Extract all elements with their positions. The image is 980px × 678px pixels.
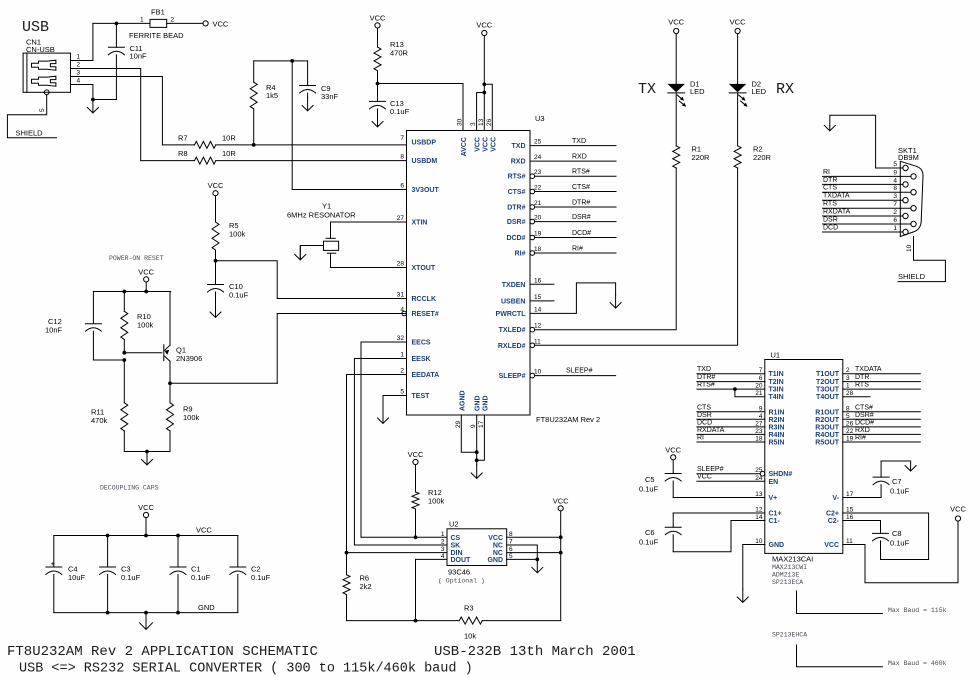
resistor R7 10R xyxy=(162,134,406,149)
svg-text:+: + xyxy=(51,559,56,568)
capacitor C6 0.1uF xyxy=(639,513,681,552)
svg-text:C2-: C2- xyxy=(828,518,840,525)
svg-text:RXD: RXD xyxy=(572,154,587,161)
svg-text:100k: 100k xyxy=(183,413,200,422)
ground xyxy=(295,247,306,260)
capacitor C2 0.1uF xyxy=(230,536,271,613)
svg-text:10k: 10k xyxy=(464,632,476,641)
svg-text:3: 3 xyxy=(893,193,897,200)
SKT1 pin 6 net DSR xyxy=(823,217,917,227)
svg-text:6: 6 xyxy=(400,183,404,190)
junction xyxy=(475,450,479,454)
junction xyxy=(376,82,380,86)
svg-text:RTS: RTS xyxy=(823,201,837,208)
svg-text:T1IN: T1IN xyxy=(769,371,784,378)
svg-text:6: 6 xyxy=(893,217,897,224)
svg-text:1: 1 xyxy=(77,54,81,61)
net RXD (U1 out) xyxy=(843,427,921,435)
svg-text:R5OUT: R5OUT xyxy=(815,440,839,447)
svg-text:SK: SK xyxy=(451,543,461,550)
U1 pin 21 T4IN xyxy=(755,390,783,401)
svg-text:U1: U1 xyxy=(771,351,781,360)
net TXD (U1) xyxy=(697,366,765,374)
wire xyxy=(71,85,93,100)
U3 pin 31 RCCLK xyxy=(397,292,436,304)
svg-text:SLEEP#: SLEEP# xyxy=(566,368,593,375)
svg-text:R3IN: R3IN xyxy=(769,424,785,431)
U2 pin 7 NC xyxy=(493,539,513,550)
U1 pin 5 R2OUT xyxy=(815,413,850,424)
svg-text:1: 1 xyxy=(893,225,897,232)
svg-text:0.1uF: 0.1uF xyxy=(121,573,141,582)
wire xyxy=(277,314,406,384)
svg-text:10: 10 xyxy=(906,244,913,252)
transistor Q1 2N3906 xyxy=(164,292,202,384)
svg-text:25: 25 xyxy=(534,139,542,146)
junction xyxy=(559,535,563,539)
svg-text:GND: GND xyxy=(475,395,482,411)
svg-text:16: 16 xyxy=(534,277,542,284)
svg-text:RXD: RXD xyxy=(511,159,526,166)
svg-text:DCD: DCD xyxy=(697,419,712,426)
svg-text:VCC: VCC xyxy=(196,526,212,535)
wire xyxy=(71,77,163,145)
svg-text:VCC: VCC xyxy=(370,13,386,22)
svg-text:VCC: VCC xyxy=(213,19,229,28)
svg-text:MAX213CWI: MAX213CWI xyxy=(772,564,807,571)
net RTS# xyxy=(535,169,616,177)
svg-text:12: 12 xyxy=(755,507,763,514)
svg-text:2k2: 2k2 xyxy=(360,582,372,591)
U3 pin 14 PWRCTL xyxy=(496,306,542,318)
svg-text:4: 4 xyxy=(441,553,445,560)
svg-text:C5: C5 xyxy=(645,475,655,484)
resistor R6 2k2 xyxy=(343,553,372,621)
wire xyxy=(145,282,147,292)
svg-text:USBEN: USBEN xyxy=(501,298,526,305)
power VCC (decoupling) xyxy=(143,512,148,517)
svg-text:3: 3 xyxy=(470,122,477,126)
U1 T4OUT stub xyxy=(843,396,870,398)
U1 pin 11 VCC xyxy=(824,538,853,549)
svg-text:25: 25 xyxy=(755,467,763,474)
capacitor C9 33nF xyxy=(300,61,339,101)
U1 pin 8 R1OUT xyxy=(815,405,850,416)
wire xyxy=(843,521,958,583)
svg-text:T3IN: T3IN xyxy=(769,387,784,394)
svg-text:DCD: DCD xyxy=(823,225,838,232)
wire xyxy=(71,69,141,161)
svg-text:4: 4 xyxy=(893,177,897,184)
junction xyxy=(144,611,148,615)
wire xyxy=(170,382,277,384)
svg-text:6MHz RESONATOR: 6MHz RESONATOR xyxy=(287,211,356,220)
svg-text:R4OUT: R4OUT xyxy=(815,432,839,439)
U1 pin 17 V- xyxy=(832,491,853,502)
svg-text:0.1uF: 0.1uF xyxy=(191,573,211,582)
svg-text:2: 2 xyxy=(846,367,850,374)
power VCC (after FB1) xyxy=(203,21,208,26)
svg-text:100k: 100k xyxy=(229,230,246,239)
resistor R1 220R xyxy=(673,93,710,168)
svg-text:DSR: DSR xyxy=(823,217,838,224)
svg-text:12: 12 xyxy=(534,323,542,330)
SKT1 pin 9 net RI xyxy=(823,169,917,179)
svg-text:19: 19 xyxy=(846,436,854,443)
svg-text:14: 14 xyxy=(755,514,763,521)
svg-text:EESK: EESK xyxy=(412,356,431,363)
junction xyxy=(122,351,126,355)
svg-text:11: 11 xyxy=(534,338,541,345)
U3 pin 18 RI# xyxy=(515,246,542,258)
svg-text:10: 10 xyxy=(534,369,542,376)
wire xyxy=(673,521,765,552)
svg-text:1: 1 xyxy=(846,383,850,390)
resistor R2 220R xyxy=(734,93,771,168)
SKT1 pin 1 net DCD xyxy=(823,225,909,235)
svg-text:VCC: VCC xyxy=(950,505,966,514)
U1 pin 6 T2IN xyxy=(759,375,784,386)
U2 pin 1 CS xyxy=(441,531,461,542)
U3 pin 32 EECS xyxy=(397,335,431,347)
capacitor C4 10uF (polarized) xyxy=(46,536,86,613)
svg-text:RESET#: RESET# xyxy=(412,311,439,318)
svg-text:33nF: 33nF xyxy=(321,92,339,101)
capacitor C12 10nF xyxy=(45,292,101,361)
svg-text:EEDATA: EEDATA xyxy=(412,372,440,379)
wire xyxy=(378,84,464,131)
svg-text:20: 20 xyxy=(755,383,763,390)
svg-text:2N3906: 2N3906 xyxy=(176,354,202,363)
svg-text:0.1uF: 0.1uF xyxy=(890,539,910,548)
net SHIELD (DB9) xyxy=(898,272,945,282)
U1 pin 4 R2IN xyxy=(759,413,785,424)
junction xyxy=(345,551,349,555)
U3 pin 16 TXDEN xyxy=(502,277,542,289)
svg-text:R1IN: R1IN xyxy=(769,409,785,416)
svg-text:XTIN: XTIN xyxy=(412,220,428,227)
wire xyxy=(300,246,323,260)
svg-text:SLEEP#: SLEEP# xyxy=(499,373,526,380)
svg-text:R4IN: R4IN xyxy=(769,432,785,439)
svg-text:5: 5 xyxy=(846,413,850,420)
U3 pin 27 XTIN xyxy=(397,215,428,227)
junction xyxy=(122,290,126,294)
svg-text:10R: 10R xyxy=(222,149,236,158)
svg-text:0.1uF: 0.1uF xyxy=(890,487,910,496)
svg-text:Max Baud = 460k: Max Baud = 460k xyxy=(888,660,947,667)
svg-text:28: 28 xyxy=(846,390,854,397)
IC U3 FT8U232AM body xyxy=(407,114,601,424)
svg-text:18: 18 xyxy=(755,436,763,443)
net RXDATA (U1) xyxy=(697,427,765,435)
svg-text:R3: R3 xyxy=(464,604,474,613)
svg-text:C6: C6 xyxy=(645,528,655,537)
SKT1 pin 5 xyxy=(876,161,909,171)
svg-text:RTS#: RTS# xyxy=(572,169,590,176)
U3 pin 15 USBEN xyxy=(501,294,542,306)
U2 pin 3 DIN xyxy=(441,546,463,557)
wire xyxy=(216,261,407,299)
svg-text:10uF: 10uF xyxy=(68,573,86,582)
ground xyxy=(372,114,383,127)
U3 pin 19 DCD# xyxy=(506,231,541,243)
wire xyxy=(843,485,881,498)
svg-text:21: 21 xyxy=(755,390,763,397)
svg-text:0.1uF: 0.1uF xyxy=(229,291,249,300)
svg-text:470k: 470k xyxy=(91,416,108,425)
svg-text:17: 17 xyxy=(478,420,485,428)
svg-text:18: 18 xyxy=(534,246,542,253)
svg-text:DCD#: DCD# xyxy=(506,235,525,242)
svg-text:11: 11 xyxy=(846,538,853,545)
wire xyxy=(167,22,203,24)
net DSR# (U1 out) xyxy=(843,412,921,420)
resistor R10 100k xyxy=(121,292,154,353)
svg-text:CS: CS xyxy=(451,535,461,542)
junction xyxy=(106,534,110,538)
junction xyxy=(106,611,110,615)
junction xyxy=(176,534,180,538)
svg-text:V+: V+ xyxy=(769,495,778,502)
net DCD (U1) xyxy=(697,419,765,427)
svg-text:VCC: VCC xyxy=(697,474,712,481)
svg-text:TEST: TEST xyxy=(412,393,431,400)
svg-text:R5IN: R5IN xyxy=(769,440,785,447)
U3 pin 20 DSR# xyxy=(507,215,542,227)
svg-text:RXD: RXD xyxy=(855,427,870,434)
svg-text:RI#: RI# xyxy=(572,246,583,253)
U1 pin 7 T1IN xyxy=(759,367,784,378)
svg-text:15: 15 xyxy=(534,294,542,301)
U1 pin 12 C1+ xyxy=(755,507,781,518)
svg-text:USB <=> RS232 SERIAL CONVERTER: USB <=> RS232 SERIAL CONVERTER ( 300 to … xyxy=(19,662,473,677)
net DTR (U1 out) xyxy=(843,374,921,382)
svg-text:CTS#: CTS# xyxy=(572,184,590,191)
junction xyxy=(214,259,218,263)
svg-text:T4IN: T4IN xyxy=(769,394,784,401)
wire xyxy=(742,545,744,590)
svg-text:VCC: VCC xyxy=(490,137,497,152)
SKT1 pin 7 net RTS xyxy=(823,201,917,211)
wire xyxy=(354,359,406,546)
svg-text:EN: EN xyxy=(769,479,779,486)
U3 pin 23 RTS# xyxy=(508,169,542,181)
svg-text:TXD: TXD xyxy=(697,366,711,373)
svg-text:16: 16 xyxy=(846,514,854,521)
wire xyxy=(124,451,170,453)
wire TXLED# xyxy=(535,168,677,330)
junction xyxy=(144,534,148,538)
svg-text:VCC: VCC xyxy=(665,445,681,454)
svg-text:LED: LED xyxy=(690,87,705,96)
junction xyxy=(535,558,539,562)
SKT1 pin 2 net RXDATA xyxy=(823,209,909,219)
svg-text:24: 24 xyxy=(534,154,542,161)
IC U2 93C46 body xyxy=(438,520,507,585)
wire xyxy=(361,536,447,538)
svg-text:U3: U3 xyxy=(535,114,545,123)
U3 pin 24 RXD xyxy=(511,154,542,166)
note Max Baud 460k bracket xyxy=(797,645,947,667)
resistor R5 100k xyxy=(208,181,246,261)
junction xyxy=(252,143,256,147)
net VCC (EN pin) xyxy=(697,474,765,482)
svg-text:USBDP: USBDP xyxy=(412,140,437,147)
U1 pin 25 SHDN# xyxy=(755,467,792,478)
U3 pin 22 CTS# xyxy=(508,185,542,197)
svg-text:U2: U2 xyxy=(449,520,459,529)
svg-text:19: 19 xyxy=(534,231,542,238)
svg-text:2: 2 xyxy=(77,62,81,69)
power VCC (U2) xyxy=(558,506,563,511)
svg-text:C1+: C1+ xyxy=(769,511,782,518)
wire xyxy=(843,521,881,534)
svg-text:DTR#: DTR# xyxy=(697,374,715,381)
svg-text:R2IN: R2IN xyxy=(769,417,785,424)
net CTS# xyxy=(535,184,616,192)
wire xyxy=(881,460,911,462)
U1 pin 15 C2+ xyxy=(826,507,854,518)
svg-text:28: 28 xyxy=(397,261,405,268)
U2 pin 8 VCC xyxy=(488,531,513,542)
U1 pin 18 R5IN xyxy=(755,436,784,447)
junction xyxy=(91,98,95,102)
net RI (U1) xyxy=(697,435,765,443)
svg-text:23: 23 xyxy=(534,169,542,176)
net TXD xyxy=(530,138,616,146)
svg-text:8: 8 xyxy=(509,531,513,538)
net RI# xyxy=(535,246,616,254)
svg-text:1: 1 xyxy=(400,352,404,359)
net RXD xyxy=(530,154,616,162)
wire xyxy=(673,512,765,514)
wire xyxy=(93,99,117,101)
svg-text:AGND: AGND xyxy=(459,390,466,411)
connector SKT1 DB9M xyxy=(898,146,923,237)
U3 pin 7 USBDP xyxy=(400,135,436,147)
svg-text:VCC: VCC xyxy=(476,21,492,30)
svg-text:9: 9 xyxy=(759,405,763,412)
svg-text:10: 10 xyxy=(755,538,763,545)
net DSR (U1) xyxy=(697,412,765,420)
U2 pin 5 GND xyxy=(487,553,513,564)
U3 pin 8 USBDM xyxy=(400,154,437,166)
svg-text:FERRITE BEAD: FERRITE BEAD xyxy=(129,31,184,40)
svg-text:C1-: C1- xyxy=(769,518,781,525)
svg-text:TXD: TXD xyxy=(512,143,526,150)
svg-text:EECS: EECS xyxy=(412,340,431,347)
svg-text:30: 30 xyxy=(457,118,464,126)
svg-text:VCC: VCC xyxy=(824,542,839,549)
U3 pin 12 TXLED# xyxy=(499,323,542,335)
svg-text:21: 21 xyxy=(534,200,542,207)
wire xyxy=(93,291,170,293)
ground xyxy=(378,410,389,423)
U3 pin 21 DTR# xyxy=(507,200,541,212)
capacitor C7 0.1uF xyxy=(843,461,910,498)
wire xyxy=(476,415,478,465)
net SHIELD (USB shell) xyxy=(7,95,56,138)
ground xyxy=(87,100,98,113)
net CTS (U1) xyxy=(697,404,765,412)
power VCC (D2) xyxy=(735,28,740,33)
svg-text:13: 13 xyxy=(755,491,763,498)
svg-text:DOUT: DOUT xyxy=(451,557,472,564)
junction xyxy=(475,458,479,462)
svg-text:GND: GND xyxy=(482,395,489,411)
svg-text:( Optional ): ( Optional ) xyxy=(438,578,485,585)
svg-text:TXLED#: TXLED# xyxy=(499,327,526,334)
net DCD# (U1 out) xyxy=(843,419,921,427)
svg-text:T2OUT: T2OUT xyxy=(816,379,840,386)
junction xyxy=(115,22,119,26)
net RTS (U1 out) xyxy=(843,382,921,390)
U3 pin 30 AVCC xyxy=(457,118,469,156)
svg-text:17: 17 xyxy=(846,491,854,498)
wire xyxy=(71,23,93,60)
ground xyxy=(532,559,543,572)
ground xyxy=(471,465,482,478)
svg-text:26: 26 xyxy=(846,420,854,427)
junction xyxy=(122,358,126,362)
svg-text:8: 8 xyxy=(846,405,850,412)
svg-text:27: 27 xyxy=(755,420,763,427)
svg-text:DECOUPLING CAPS: DECOUPLING CAPS xyxy=(100,485,159,492)
U3 pin 2 EEDATA xyxy=(400,368,439,380)
svg-text:VCC: VCC xyxy=(488,535,503,542)
svg-text:5: 5 xyxy=(893,161,897,168)
svg-text:RXDATA: RXDATA xyxy=(823,209,851,216)
capacitor C11 10nF xyxy=(108,23,147,99)
svg-text:32: 32 xyxy=(397,335,405,342)
U1 pin 26 R3OUT xyxy=(815,420,853,431)
resistor R8 10R xyxy=(141,149,407,164)
svg-text:RI#: RI# xyxy=(855,435,866,442)
svg-text:R2OUT: R2OUT xyxy=(815,417,839,424)
junction xyxy=(145,450,149,454)
svg-text:13: 13 xyxy=(478,118,485,126)
svg-text:22: 22 xyxy=(534,185,542,192)
U3 pin 1 EESK xyxy=(400,352,430,364)
net SLEEP# (U1) xyxy=(697,466,760,474)
svg-text:RXDATA: RXDATA xyxy=(697,427,725,434)
U1 pin 28 T4OUT xyxy=(816,390,854,401)
resistor R3 10k xyxy=(347,604,561,641)
power VCC (reset circuit) xyxy=(144,277,149,282)
U1 pin 2 T1OUT xyxy=(816,367,850,378)
note alternate parts xyxy=(772,564,807,586)
SKT1 pin 8 net CTS xyxy=(823,185,917,195)
svg-text:93C46: 93C46 xyxy=(448,568,470,577)
svg-text:14: 14 xyxy=(534,306,542,313)
wire xyxy=(124,352,162,354)
svg-text:CTS#: CTS# xyxy=(508,189,526,196)
svg-text:TXDATA: TXDATA xyxy=(823,193,850,200)
junction xyxy=(144,290,148,294)
U3 pin 5 TEST xyxy=(400,389,430,401)
wire PWRCTL to ground xyxy=(530,283,616,314)
svg-text:SHIELD: SHIELD xyxy=(898,272,926,281)
U3 pin 3 VCC xyxy=(470,122,482,152)
U1 pin 22 R4OUT xyxy=(815,428,853,439)
wire xyxy=(477,415,485,460)
wire xyxy=(54,612,238,614)
wire xyxy=(93,22,150,24)
svg-text:TXDEN: TXDEN xyxy=(502,282,526,289)
svg-text:5: 5 xyxy=(400,389,404,396)
ground (decoupling rail) xyxy=(140,613,153,630)
